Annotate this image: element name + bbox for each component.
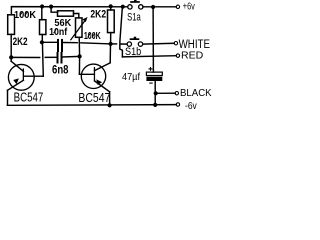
wire R2 top lead xyxy=(41,7,43,20)
switch S1a bar xyxy=(130,0,140,3)
switch S1a circles xyxy=(128,5,132,9)
junction dot Q1 collector node xyxy=(9,55,13,59)
trimmer 100K box xyxy=(76,18,83,37)
wire trimmer bottom to Q2 base node xyxy=(78,37,80,74)
wire 47uf top lead from top rail xyxy=(152,7,154,72)
transistor Q1 circle xyxy=(8,64,34,90)
svg-text:2K2: 2K2 xyxy=(13,36,28,48)
junction dot bottom rail / Q2 emitter xyxy=(108,103,112,107)
wire RED row xyxy=(122,56,176,57)
wire top rail left section xyxy=(11,7,127,15)
wire S1b row from Q2 collector node to hop xyxy=(111,43,117,45)
wire row1 hop to Q2 collector node xyxy=(81,43,111,44)
svg-text:BC547: BC547 xyxy=(78,91,110,105)
svg-text:S1b: S1b xyxy=(125,46,141,58)
switch S1b bar xyxy=(130,37,140,40)
transistor Q1 collector diagonal xyxy=(11,61,23,71)
junction dot bottom rail / 47uf lead xyxy=(153,103,157,107)
resistor 2K2 right xyxy=(108,10,115,33)
transistor Q1 emitter arrow xyxy=(13,78,19,84)
junction dot rail / 56K branch xyxy=(49,5,53,9)
wire bottom rail xyxy=(8,104,177,107)
wire 2K2 right top lead xyxy=(110,7,112,10)
transistor Q2 emitter arrow xyxy=(96,79,102,85)
wire Q1 emitter to bottom rail xyxy=(7,90,9,105)
wire S1b row hop to S1b xyxy=(121,43,127,45)
svg-text:BLACK: BLACK xyxy=(180,88,212,99)
wire Q2 collector vertical xyxy=(109,44,111,63)
wire 56K left lead xyxy=(51,7,57,13)
svg-text:47µf: 47µf xyxy=(122,72,140,83)
terminal -6v circle xyxy=(176,103,179,106)
svg-text:10nf: 10nf xyxy=(49,27,68,38)
wire 56K right lead to trimmer xyxy=(74,14,79,18)
resistor 2K2 left (R1) xyxy=(8,15,15,35)
transistor Q1 emitter diagonal xyxy=(8,80,24,90)
terminal +6v circle xyxy=(176,5,179,8)
transistor Q1 base bar xyxy=(23,68,24,80)
svg-text:RED: RED xyxy=(181,51,203,62)
wire Q2 base horizontal xyxy=(79,73,93,75)
wire BLACK row xyxy=(156,92,176,94)
svg-text:WHITE: WHITE xyxy=(179,37,210,51)
svg-text:100K: 100K xyxy=(84,31,101,42)
transistor Q2 circle xyxy=(81,64,105,88)
wire S1b to WHITE terminal xyxy=(143,42,174,45)
slashed zeros detail xyxy=(20,12,95,38)
resistor 56K xyxy=(58,11,74,16)
terminal RED circle xyxy=(176,54,179,57)
wire 2K2 right bottom lead xyxy=(110,33,112,44)
junction dot Q1 base node xyxy=(40,40,44,44)
capacitor 47uf minus sign xyxy=(149,82,152,84)
junction dot rail / RED branch xyxy=(121,5,125,9)
junction dot Q2 base node xyxy=(78,54,82,58)
wire node A vertical to Q1 base xyxy=(41,42,44,76)
junction dot rail / 47uf branch xyxy=(151,5,155,9)
transistor Q2 collector diagonal xyxy=(95,63,111,71)
svg-text:-6v: -6v xyxy=(185,101,197,112)
wire row1 Q1 base to 10nf xyxy=(42,41,58,43)
junction dot rail / 2K2 right top xyxy=(109,4,113,8)
junction dot Q2 collector node xyxy=(109,42,113,46)
svg-text:100K: 100K xyxy=(14,9,36,21)
junction dot BLACK / 47uf negative xyxy=(154,91,158,95)
capacitor 47uf plus sign xyxy=(149,67,153,83)
svg-text:S1a: S1a xyxy=(127,12,141,24)
wire Q2 emitter to bottom rail xyxy=(109,92,111,105)
wire +6v branch down to RED (hops over S1b row) xyxy=(120,7,123,57)
wire row2 crossing to 6n8 xyxy=(45,56,56,58)
wire R2 bottom lead xyxy=(41,35,43,43)
svg-text:2K2: 2K2 xyxy=(90,9,106,21)
svg-text:6n8: 6n8 xyxy=(52,62,69,76)
wire row2 6n8 to Q2 base node xyxy=(62,55,79,58)
transistor Q2 emitter diagonal xyxy=(95,81,110,92)
resistor 100K left (R2) xyxy=(40,20,46,35)
wire row2 Q1 collector to crossing xyxy=(11,56,40,58)
trimmer 100K arrow xyxy=(71,20,86,40)
capacitor 47uf electrolytic xyxy=(146,72,162,75)
wire R1 bottom to Q1 collector node xyxy=(10,34,12,61)
wire 47uf bottom lead to bottom rail xyxy=(154,81,156,105)
svg-text:BC547: BC547 xyxy=(14,90,44,104)
capacitor 6n8 plates xyxy=(57,52,63,64)
terminal WHITE circle xyxy=(174,42,177,45)
terminal BLACK circle xyxy=(175,92,178,95)
switch S1b circles xyxy=(127,42,131,46)
wire Q1 base horizontal xyxy=(24,75,43,77)
capacitor 10nf plates xyxy=(57,39,63,52)
wire row1 10nf to hop xyxy=(63,42,77,44)
wire top rail right section to +6v xyxy=(143,6,176,8)
transistor Q2 base bar xyxy=(94,67,95,81)
junction dot rail / R2 100K top xyxy=(40,4,44,8)
svg-text:+6v: +6v xyxy=(183,1,195,12)
